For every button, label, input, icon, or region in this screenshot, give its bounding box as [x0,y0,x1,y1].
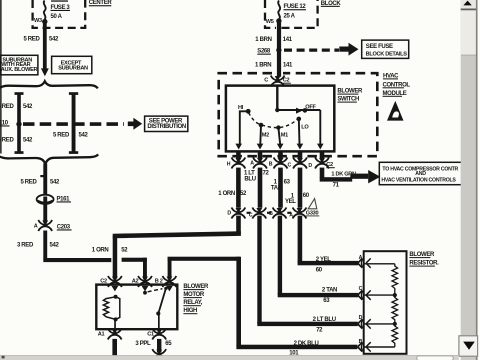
svg-text:D: D [308,163,312,169]
svg-text:HVAC VENTILATION CONTROLS: HVAC VENTILATION CONTROLS [381,177,456,183]
svg-text:OFF: OFF [305,104,316,110]
svg-text:50 A: 50 A [51,14,63,20]
svg-text:B: B [359,339,363,345]
svg-text:SUBURBAN: SUBURBAN [58,65,88,71]
svg-text:C: C [288,162,292,168]
svg-text:141: 141 [283,37,293,43]
svg-text:542: 542 [50,242,60,248]
svg-text:YEL: YEL [285,199,296,205]
svg-text:542: 542 [49,37,59,43]
svg-text:141: 141 [283,62,293,68]
svg-text:AUX. BLOWER: AUX. BLOWER [1,67,38,73]
svg-text:1 LT: 1 LT [244,171,255,177]
svg-text:BLU: BLU [244,177,255,183]
svg-text:63: 63 [284,180,291,186]
svg-text:65: 65 [165,341,172,347]
svg-text:A: A [34,223,38,229]
svg-text:542: 542 [23,104,33,110]
svg-text:72: 72 [263,171,270,177]
svg-text:2 TAN: 2 TAN [322,288,337,294]
svg-text:1 ORN: 1 ORN [92,248,109,254]
svg-text:72: 72 [316,328,323,334]
svg-text:HI: HI [238,105,244,111]
svg-text:C: C [359,286,363,292]
svg-text:D: D [227,210,231,216]
svg-text:1 BRN: 1 BRN [255,37,271,43]
svg-text:25 A: 25 A [284,14,296,20]
svg-text:52: 52 [121,248,128,254]
svg-text:5 RED: 5 RED [24,37,41,43]
svg-text:A: A [250,161,254,167]
svg-text:2 LT BLU: 2 LT BLU [313,317,336,323]
svg-text:3 PPL: 3 PPL [135,341,151,347]
svg-text:60: 60 [316,267,323,273]
svg-text:542: 542 [50,180,60,186]
svg-text:52: 52 [240,191,247,197]
svg-text:BLOCK DETAILS: BLOCK DETAILS [366,52,408,58]
svg-text:A: A [359,255,363,261]
svg-text:5 RED: 5 RED [0,104,14,110]
svg-text:C1: C1 [147,332,154,338]
svg-text:71: 71 [333,183,340,189]
svg-text:W5: W5 [266,19,274,25]
svg-text:B: B [269,161,273,167]
svg-text:D: D [359,315,363,321]
svg-text:M1: M1 [281,132,288,138]
svg-text:H: H [227,161,231,167]
svg-text:SEE FUSE: SEE FUSE [366,44,393,50]
svg-text:63: 63 [323,298,330,304]
svg-text:AND: AND [415,171,426,177]
svg-text:W3: W3 [34,18,42,24]
svg-text:5 RED: 5 RED [0,138,14,144]
svg-text:5 RED: 5 RED [21,180,38,186]
svg-text:542: 542 [79,133,89,139]
svg-text:M2: M2 [262,132,269,138]
svg-text:1 BRN: 1 BRN [255,62,271,68]
svg-text:3 RED: 3 RED [17,242,34,248]
svg-text:C: C [264,78,268,84]
svg-text:542: 542 [23,138,33,144]
svg-text:TAN: TAN [271,186,282,192]
svg-text:LO: LO [301,124,309,130]
svg-text:2 YEL: 2 YEL [316,257,331,263]
svg-text:A1: A1 [98,332,105,338]
svg-text:60: 60 [303,193,310,199]
svg-text:2 DK BLU: 2 DK BLU [294,341,319,347]
svg-text:5 RED: 5 RED [53,133,70,139]
svg-text:DISTRIBUTION: DISTRIBUTION [147,124,185,130]
svg-text:1 ORN: 1 ORN [218,191,235,197]
